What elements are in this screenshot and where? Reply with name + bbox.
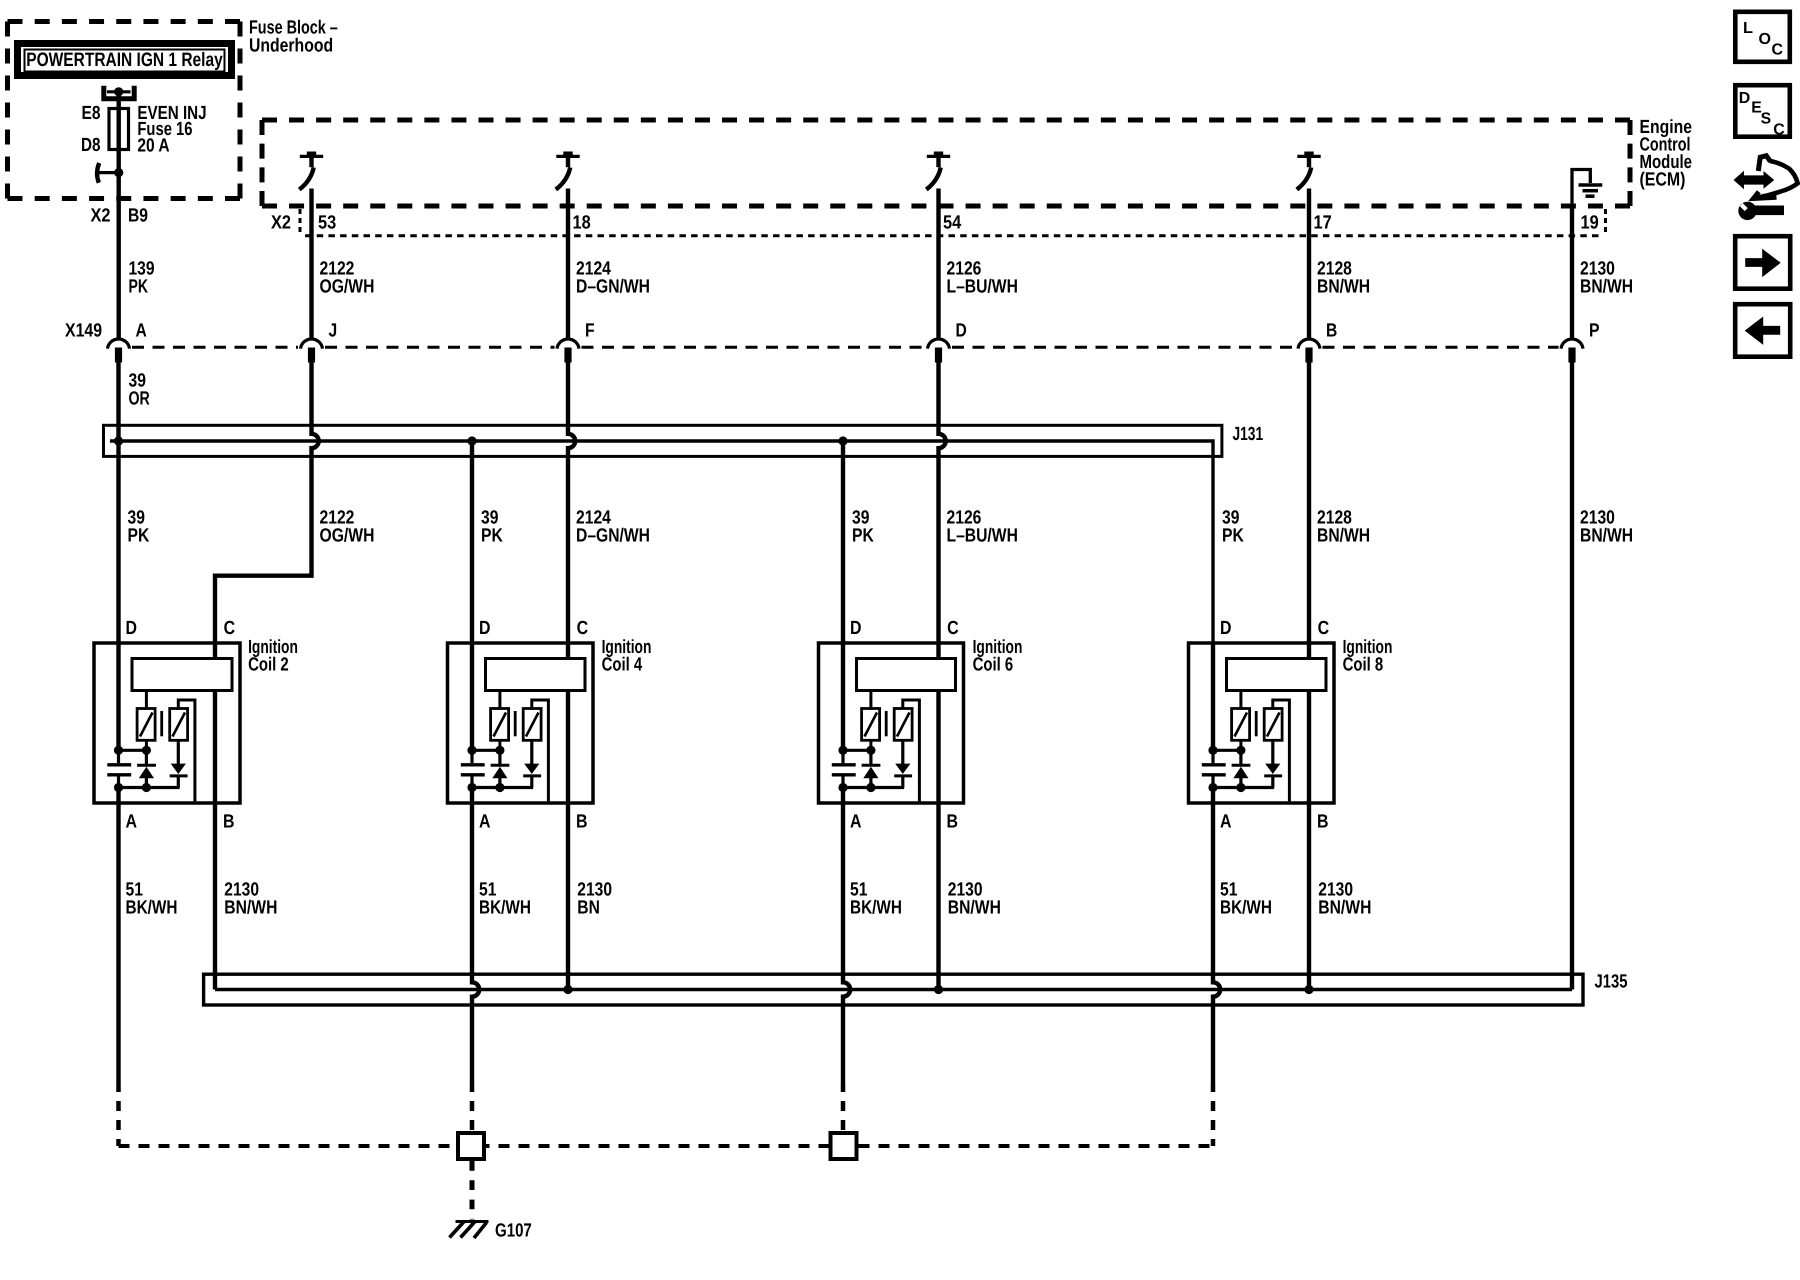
svg-text:Coil 4: Coil 4 [602,655,643,676]
svg-text:G107: G107 [495,1221,532,1242]
svg-text:BK/WH: BK/WH [126,898,178,919]
wire 51 BK/WH coil2 A down [116,803,120,1082]
wire 2130 coil4 B to J135 [566,803,570,990]
svg-text:PK: PK [1222,525,1244,546]
svg-text:X2: X2 [91,206,111,227]
wire 2124 D–GN/WH (ECM to X149) [566,189,570,340]
icon next page (right arrow box) [1735,236,1790,289]
ignition coil 8 box [1189,643,1335,803]
Coil 8 diode (down) [1264,740,1282,787]
svg-text:C: C [224,618,236,639]
pin labels X2 B9 [91,206,149,227]
connector X149 pin P [1561,320,1600,362]
label 2130 BN/WH (below J131) [1580,508,1633,547]
svg-text:Coil 6: Coil 6 [973,655,1014,676]
label 2124 D–GN/WH [576,259,650,298]
dashed wire coil8 A to ground run [1211,1082,1216,1146]
Coil 4 junction bar upper [467,740,504,755]
relay POWERTRAIN IGN 1 Relay (label box) [18,44,232,76]
label 51 BK/WH (coil 2) [126,880,178,919]
svg-text:B: B [1326,320,1337,341]
wire 51 BK/WH coil8 A down (hop at J135) [1213,803,1220,1082]
splice J131 bus (outer) [104,425,1222,456]
wire relay to fuse E8 [116,92,120,108]
dashed wire to ground G107 [470,1161,475,1220]
junction dot 39 tap coil6 [838,436,847,445]
junction dot coil4 B/J135 [563,985,572,994]
svg-text:L–BU/WH: L–BU/WH [947,277,1018,298]
Coil 8 internal wires [1213,643,1309,803]
Coil 2 igniter element 1 [137,709,155,741]
svg-text:Coil 2: Coil 2 [248,655,289,676]
ECM connector face dotted line [305,234,1601,237]
Coil 8 igniter element 1 [1232,709,1250,741]
svg-text:17: 17 [1314,212,1332,233]
label 51 BK/WH (coil 4) [479,880,531,919]
svg-text:D: D [956,320,967,341]
wire 2130 coil2 B to J135 (start of bus) [213,803,217,990]
svg-text:53: 53 [318,212,336,233]
svg-text:BN/WH: BN/WH [1317,277,1370,298]
svg-text:PK: PK [852,525,874,546]
svg-text:PK: PK [481,525,503,546]
wire 2124 (X149 F to coil4 C, hop at J131) [568,362,575,643]
icon wiring navigation (double arrow + hand + wrench) [1734,156,1798,220]
wire 2130 BN/WH (ECM to X149) [1570,206,1574,339]
Coil 6 diode (down) [894,740,912,787]
svg-text:Underhood: Underhood [249,35,333,56]
label Ignition Coil 2 [248,637,298,676]
svg-text:(ECM): (ECM) [1640,169,1686,190]
icon LOC box [1735,12,1790,62]
svg-text:20 A: 20 A [137,135,169,156]
svg-text:C: C [577,618,589,639]
engine control module ECM (dashed box) [262,120,1630,206]
wire 2126 L–BU/WH (ECM to X149) [936,189,940,340]
svg-text:A: A [136,320,148,341]
label 2122 OG/WH (below J131) [320,508,375,547]
svg-text:D8: D8 [81,135,101,156]
svg-text:A: A [1220,811,1232,832]
Coil 6 igniter element 1 [862,709,880,741]
svg-text:B9: B9 [128,206,148,227]
inline connector square (coil6 branch) [831,1133,857,1159]
wire 2128 (X149 B to coil8 C) [1307,362,1311,643]
junction dot coil6 B/J135 [934,985,943,994]
connector X149 pin F [557,320,595,362]
Coil 6 igniter separator bar [885,711,888,736]
ECM driver switch (pin 17) [1297,152,1321,190]
dashed wire coil4 A to inline connector [470,1082,475,1131]
svg-text:O: O [1759,31,1772,48]
Coil 4 igniter element 1 [491,709,509,741]
splice J131 bus wire [110,441,1213,643]
Coil 6 igniter element 2 [894,709,912,741]
Coil 8 junction bar lower [1208,783,1274,803]
Coil 8 capacitor [1202,750,1226,787]
splice J135 bus wire [215,988,1572,991]
Coil 4 igniter separator bar [514,711,517,736]
wire 39 PK (J131 to coil2 D) [116,441,120,643]
Coil 6 zener diode (up) [862,750,881,787]
label Engine Control Module (ECM) [1640,117,1693,191]
connector X149 label [65,320,102,341]
svg-text:PK: PK [129,277,149,298]
inline connector square (at G107 drop) [458,1133,484,1159]
connector X149 pin B [1298,320,1337,362]
svg-text:D: D [850,618,862,639]
Coil 4 internal wires [472,643,568,803]
label 2126 L–BU/WH [947,259,1018,298]
Coil 2 capacitor [107,750,131,787]
svg-text:D: D [479,618,491,639]
connector X149 dashed line [132,346,1559,349]
Coil 6 junction bar upper [838,740,875,755]
svg-text:BN/WH: BN/WH [224,898,277,919]
ignition coil 6 box [819,643,964,803]
svg-text:L: L [1743,20,1753,37]
svg-text:X2: X2 [271,212,291,233]
Coil 8 igniter separator bar [1255,711,1258,736]
label J131 [1233,424,1264,445]
wire 39 PK (J131 tap to coil6 D) [841,441,845,643]
Coil 4 zener diode (up) [491,750,510,787]
Coil 2 igniter element 2 [170,709,188,741]
Coil 4 primary winding box [486,659,586,691]
Coil 2 pin letters D C A B [126,618,236,832]
Coil 4 junction bar lower [467,783,533,803]
Coil 2 diode (down) [170,740,188,787]
svg-text:OG/WH: OG/WH [320,525,375,546]
svg-text:E8: E8 [82,103,101,124]
label 2130 BN/WH (coil 2) [224,880,277,919]
svg-text:D–GN/WH: D–GN/WH [576,525,650,546]
svg-text:BN: BN [577,898,600,919]
dashed wire coil2 A to ground run [116,1082,121,1146]
Coil 6 pin letters D C A B [850,618,959,832]
pin separator dash-dot (X2|53) [299,209,302,233]
wire 39 OR (X149 A to splice J131) [116,362,120,441]
Coil 4 capacitor [461,750,485,787]
svg-text:D–GN/WH: D–GN/WH [576,277,650,298]
svg-text:J131: J131 [1233,424,1264,445]
label 39 PK (below J131) [1222,508,1244,547]
svg-text:F: F [585,320,595,341]
label 2128 BN/WH (below J131) [1317,508,1370,547]
label 2130 BN/WH [1580,259,1633,298]
label 51 BK/WH (coil 8) [1220,880,1272,919]
ground G107 symbol [450,1221,489,1238]
icon previous page (left arrow box) [1735,304,1790,357]
svg-text:B: B [1317,811,1329,832]
wire 2130 (X149 P to splice J135) [1570,362,1574,990]
label 139 PK [129,259,155,298]
svg-text:PK: PK [128,525,150,546]
wire 2130 coil6 B to J135 [936,803,940,990]
svg-text:BN/WH: BN/WH [1318,898,1371,919]
dashed ground run horizontal [119,1144,1214,1148]
wire 2122 (X149 J to coil2 C, hop at J131) [215,362,319,643]
label 2122 OG/WH [320,259,375,298]
wire 51 BK/WH coil4 A down (hop at J135) [472,803,479,1082]
Coil 4 igniter element 2 [523,709,541,741]
svg-text:Coil 8: Coil 8 [1343,655,1384,676]
label G107 [495,1221,532,1242]
Coil 8 igniter element 2 [1264,709,1282,741]
Coil 8 zener diode (up) [1232,750,1251,787]
svg-text:B: B [576,811,588,832]
svg-text:A: A [479,811,491,832]
ignition coil 2 box [94,643,240,803]
relay switch contact [96,163,123,183]
Coil 4 diode (down) [523,740,541,787]
svg-text:A: A [126,811,138,832]
icon DESC box [1735,85,1790,138]
label 39 PK (below J131) [481,508,503,547]
svg-text:OR: OR [129,388,151,409]
label J135 [1595,972,1628,993]
svg-text:54: 54 [943,212,962,233]
Coil 6 internal wires [843,643,939,803]
label 2126 L–BU/WH (below J131) [947,508,1018,547]
junction dot coil8 B/J135 [1304,985,1313,994]
relay output terminal symbol [104,86,134,99]
svg-text:C: C [1773,121,1785,138]
connector X149 pin J [301,320,338,362]
svg-text:C: C [1318,618,1330,639]
junction dot 39 tap coil4 [467,436,476,445]
Coil 2 internal wires [119,643,216,803]
svg-text:BK/WH: BK/WH [1220,898,1272,919]
ECM pin labels X2 53 18 54 17 19 [271,212,1599,233]
Coil 2 igniter separator bar [160,711,163,736]
pin separator dash-dot (19|) [1604,209,1607,233]
wire 2122 OG/WH (ECM to X149) [309,189,313,340]
svg-text:L–BU/WH: L–BU/WH [947,525,1018,546]
svg-text:A: A [850,811,862,832]
fuse block - underhood (dashed box) [8,22,241,199]
Coil 2 junction bar lower [114,783,180,803]
svg-text:D: D [1739,90,1751,107]
splice J135 bus (outer) [204,974,1583,1005]
svg-text:BN/WH: BN/WH [1580,525,1633,546]
Coil 2 junction bar upper [114,740,151,755]
label 39 PK (below J131) [128,508,150,547]
fuse F16 EVEN INJ 20A [81,103,207,173]
ignition coil 4 box [448,643,594,803]
svg-text:BK/WH: BK/WH [850,898,902,919]
ECM driver switch (pin 54) [926,152,950,190]
label 51 BK/WH (coil 6) [850,880,902,919]
Coil 8 primary winding box [1227,659,1327,691]
Coil 8 junction bar upper [1208,740,1245,755]
svg-text:X149: X149 [65,320,102,341]
svg-text:BK/WH: BK/WH [479,898,531,919]
label 39 OR [129,371,151,410]
Coil 6 junction bar lower [838,783,904,803]
ECM driver switch (pin 18) [556,152,580,190]
label 2130 BN (coil 4) [577,880,612,919]
svg-text:P: P [1589,320,1600,341]
wire 2128 BN/WH (ECM to X149) [1307,189,1311,340]
Coil 2 primary winding box [132,659,232,691]
ECM internal ground at pin 19 [1572,170,1602,207]
ECM driver switch (pin 53) [299,152,323,190]
wire 2126 (X149 D to coil6 C, hop at J131) [939,362,946,643]
svg-text:S: S [1761,110,1772,127]
wire 2130 coil8 B to J135 [1307,803,1311,990]
svg-text:J: J [329,320,338,341]
svg-text:B: B [223,811,235,832]
Coil 6 primary winding box [857,659,956,691]
svg-text:OG/WH: OG/WH [320,277,375,298]
wire 51 BK/WH coil6 A down (hop at J135) [843,803,850,1082]
svg-text:BN/WH: BN/WH [1317,525,1370,546]
label Ignition Coil 4 [602,637,652,676]
label 2130 BN/WH (coil 8) [1318,880,1371,919]
label 2130 BN/WH (coil 6) [948,880,1001,919]
svg-text:POWERTRAIN IGN 1 Relay: POWERTRAIN IGN 1 Relay [26,49,223,71]
svg-text:19: 19 [1581,212,1599,233]
svg-text:18: 18 [573,212,591,233]
svg-text:B: B [947,811,959,832]
svg-text:D: D [126,618,138,639]
svg-text:D: D [1220,618,1232,639]
Coil 6 capacitor [832,750,856,787]
Coil 2 zener diode (up) [137,750,156,787]
svg-text:BN/WH: BN/WH [1580,277,1633,298]
label 2128 BN/WH [1317,259,1370,298]
label 2124 D–GN/WH (below J131) [576,508,650,547]
svg-text:J135: J135 [1595,972,1628,993]
Coil 8 pin letters D C A B [1220,618,1329,832]
label Ignition Coil 8 [1343,637,1393,676]
label Ignition Coil 6 [973,637,1023,676]
Coil 4 pin letters D C A B [479,618,588,832]
wire 39 PK (J131 tap to coil4 D) [470,441,474,643]
dashed wire coil6 A to inline connector [841,1082,846,1131]
wire 139 PK (fuse block to X149 A) [116,173,120,339]
junction dot A/J131 [114,436,123,445]
svg-text:BN/WH: BN/WH [948,898,1001,919]
label 39 PK (below J131) [852,508,874,547]
connector X149 pin A [108,320,148,362]
connector X149 pin D [928,320,967,362]
svg-text:C: C [947,618,959,639]
label Fuse Block - Underhood [249,18,338,57]
svg-text:C: C [1772,42,1784,59]
